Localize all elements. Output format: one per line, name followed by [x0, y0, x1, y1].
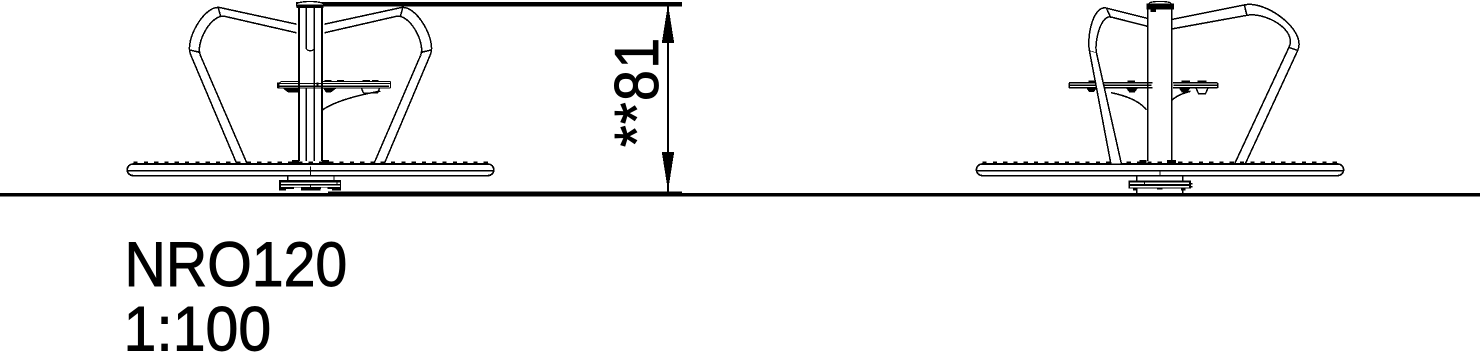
- seat wedge right of post: [323, 88, 337, 92]
- post feet right figure: [1140, 160, 1147, 165]
- joint tick bend end left: [190, 50, 200, 53]
- svg-text:**81: **81: [601, 36, 672, 147]
- dimension arrow bottom: [662, 152, 674, 191]
- hub right bracket sides: [1136, 176, 1138, 180]
- right handlebar: [324, 7, 431, 163]
- platform tread ticks: [134, 161, 488, 163]
- platform mid line: [128, 170, 494, 172]
- platform left: [127, 164, 494, 176]
- platform right: [976, 164, 1343, 176]
- cap: [296, 2, 323, 8]
- seat dark block at post: [316, 83, 318, 88]
- joint tick bend end right: [421, 50, 431, 53]
- right fig right corner: [1245, 4, 1299, 50]
- cap right figure: [1149, 1, 1171, 5]
- platform tread ticks right: [983, 161, 1337, 163]
- hub plate stack: [279, 180, 341, 191]
- ground line: [0, 193, 1480, 197]
- hub right feet: [1133, 188, 1138, 190]
- dimension line: [667, 6, 669, 192]
- dimension arrow top: [662, 4, 674, 43]
- seat plank left figure: [277, 82, 390, 89]
- hub right center line: [1159, 171, 1161, 177]
- joint ticks right: [1244, 5, 1247, 15]
- right fig right tube down: [1246, 51, 1298, 164]
- dimension top extension line: [296, 2, 682, 6]
- right fig left tube down (occludes seat): [1090, 51, 1122, 163]
- seat bracket under right end: [362, 89, 380, 94]
- right fig right seat curve: [1172, 91, 1191, 100]
- hub right plate stack: [1128, 180, 1192, 190]
- right fig left handlebar upper: [1089, 8, 1148, 53]
- seat wedge left of post: [282, 88, 298, 92]
- svg-text:NRO120: NRO120: [125, 229, 348, 300]
- inner band bottom arc: [306, 48, 314, 51]
- joint tick bend start right: [400, 8, 402, 16]
- post right figure: [1147, 9, 1149, 161]
- right fig left corner: [1089, 8, 1107, 51]
- seat support curve: [322, 91, 380, 110]
- seat clamp dashes above plank: [325, 80, 332, 82]
- left handlebar: [189, 7, 296, 163]
- svg-text:1:100: 1:100: [124, 294, 272, 352]
- right fig left seat curve: [1111, 93, 1147, 110]
- post lines: [298, 8, 300, 161]
- right fig right handlebar upper: [1172, 4, 1300, 163]
- hub feet: [279, 189, 286, 190]
- hub bracket sides: [287, 176, 289, 180]
- joint ticks left: [1106, 8, 1111, 18]
- right fig left seat: [1069, 83, 1152, 88]
- post feet on platform: [292, 160, 299, 164]
- joint tick bend start left: [218, 8, 220, 16]
- dimension bottom extension line: [328, 191, 682, 193]
- right fig right seat: [1173, 83, 1218, 88]
- hub center line: [309, 167, 311, 177]
- seat dark tip block: [277, 83, 280, 88]
